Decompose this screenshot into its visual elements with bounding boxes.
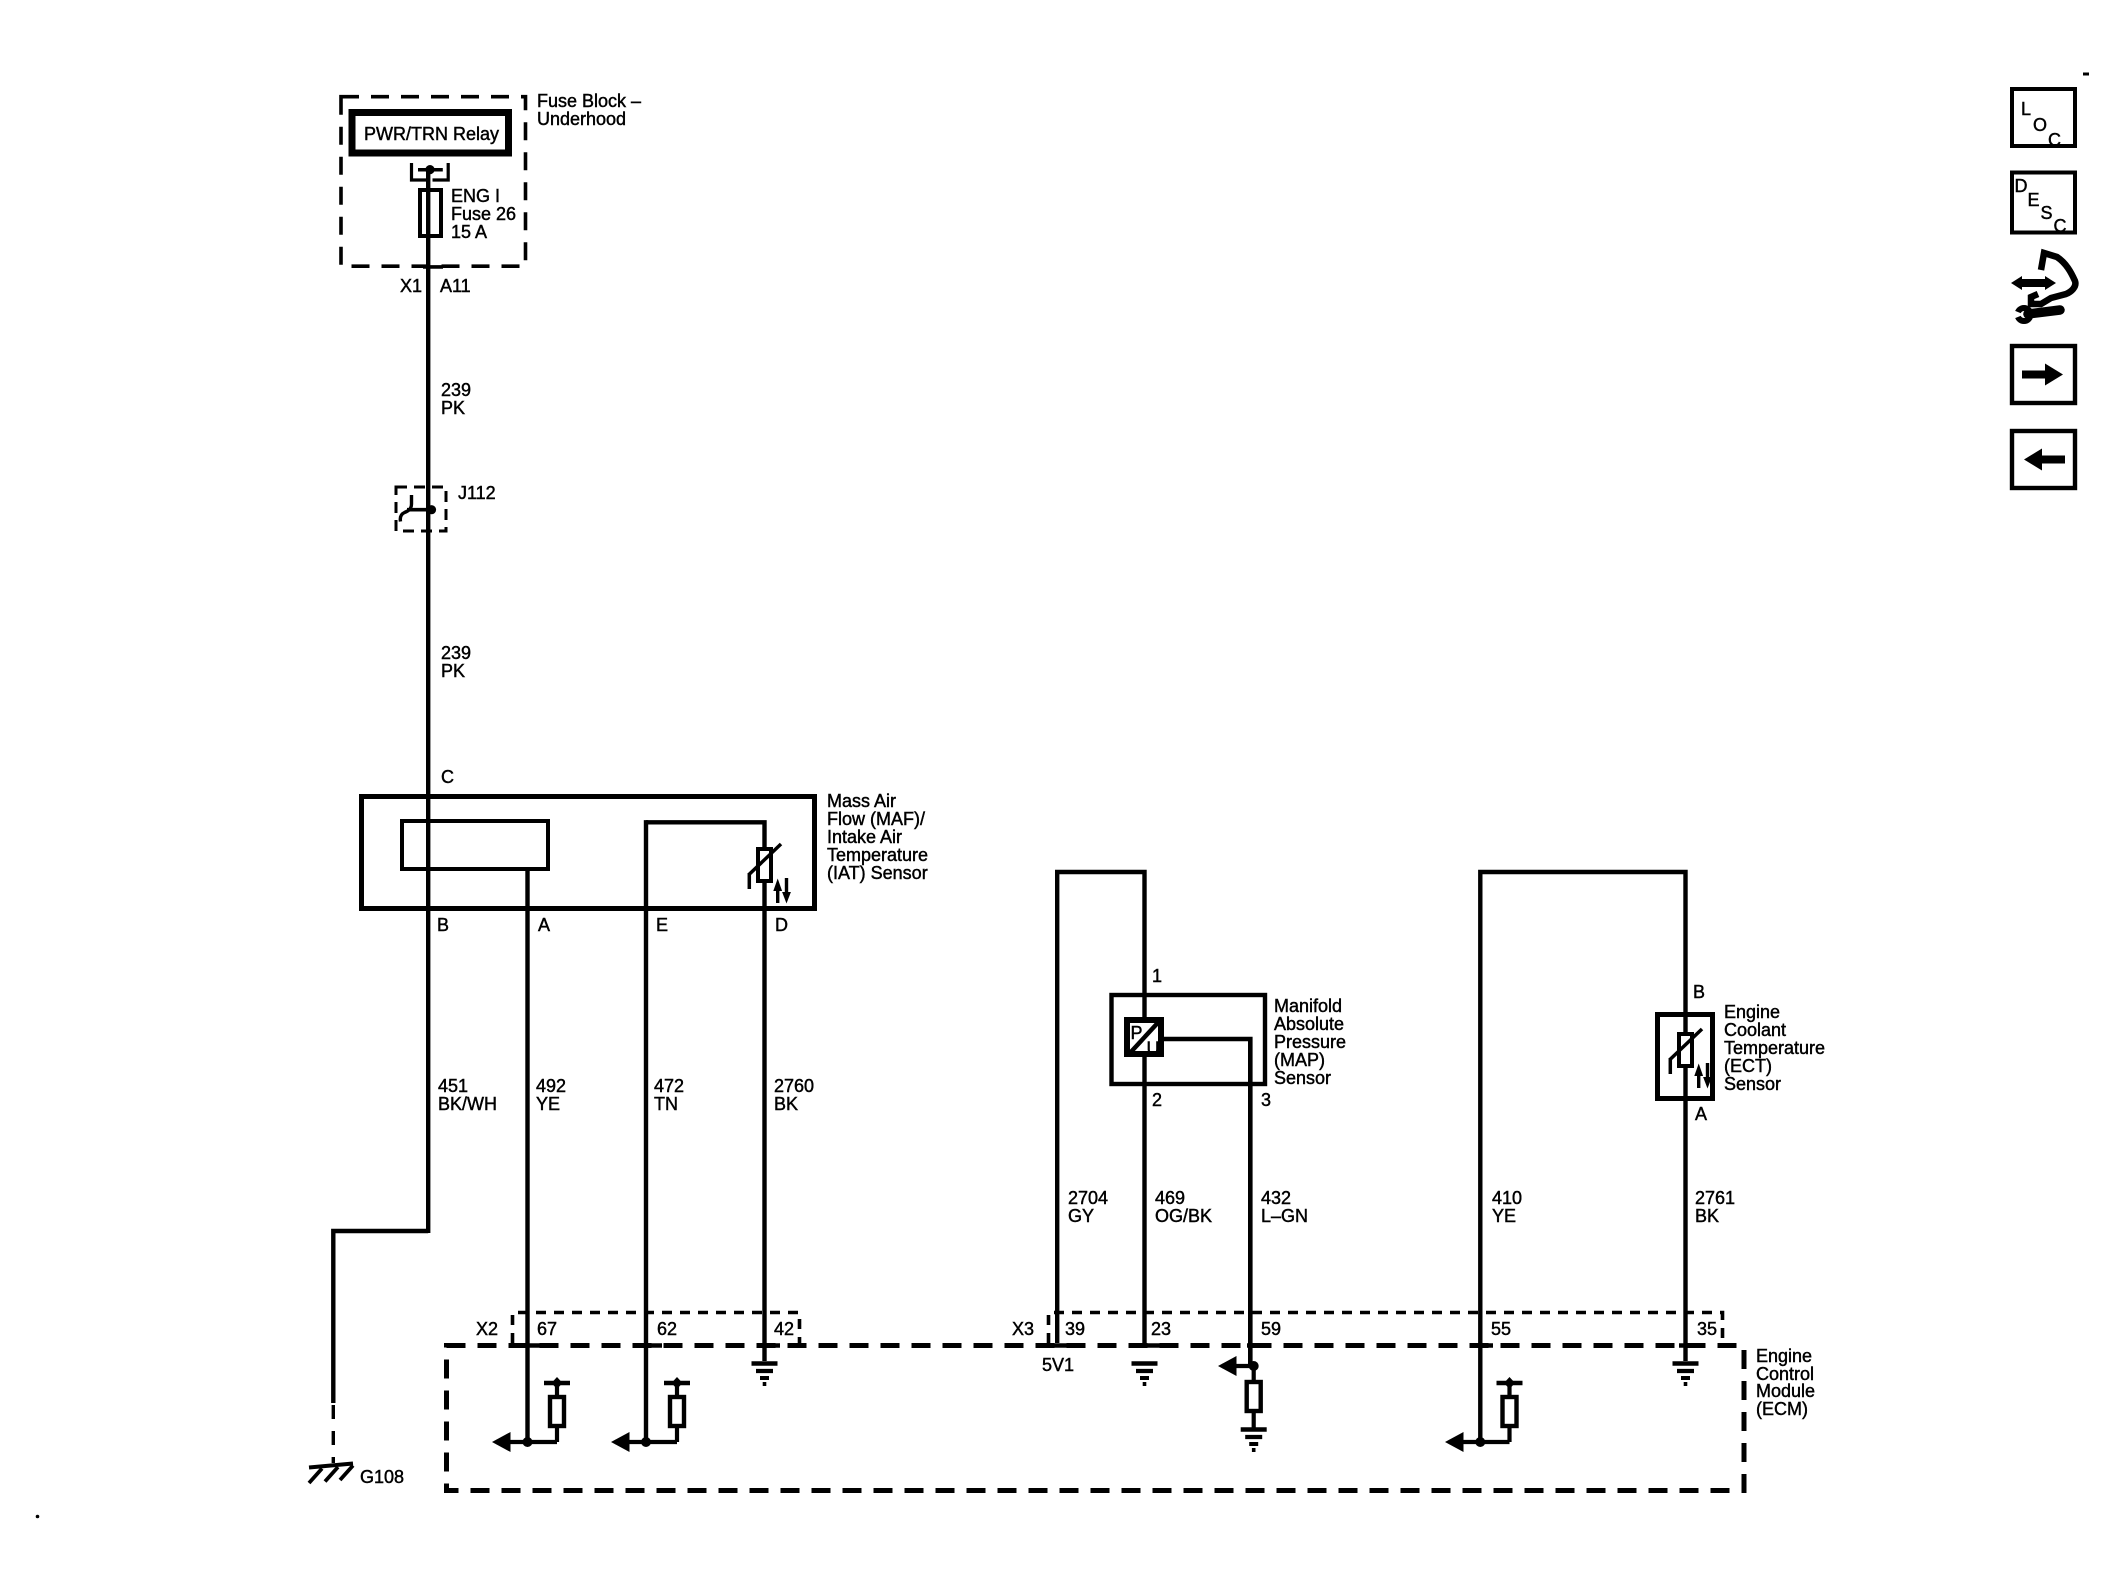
pin tick 55 bbox=[1471, 1343, 1493, 1348]
ECT wires: riser from ECM 55 bbox=[1480, 872, 1685, 1442]
resistor at pin 67 bbox=[544, 1381, 570, 1385]
MAP sensor wires: pin 1 riser from ECM 39 bbox=[1057, 872, 1144, 1343]
svg-text:Manifold: Manifold bbox=[1274, 996, 1342, 1016]
MAF inner element box bbox=[402, 821, 548, 869]
svg-text:TN: TN bbox=[654, 1094, 678, 1114]
svg-text:D: D bbox=[775, 915, 788, 935]
svg-text:U: U bbox=[1147, 1039, 1160, 1059]
IAT thermistor bbox=[758, 849, 771, 881]
svg-text:YE: YE bbox=[536, 1094, 560, 1114]
svg-text:A11: A11 bbox=[440, 276, 471, 296]
connector X2 (dotted box) bbox=[513, 1313, 800, 1344]
svg-text:S: S bbox=[2041, 203, 2053, 223]
svg-text:P: P bbox=[1131, 1023, 1143, 1043]
pin tick X1 A11 bbox=[423, 265, 443, 269]
svg-text:1: 1 bbox=[1152, 966, 1162, 986]
svg-text:X1: X1 bbox=[400, 276, 422, 296]
stray mark top right bbox=[2083, 73, 2089, 76]
svg-text:62: 62 bbox=[657, 1319, 677, 1339]
svg-text:469: 469 bbox=[1155, 1188, 1185, 1208]
svg-text:Underhood: Underhood bbox=[537, 109, 626, 129]
ECT variable arrows bbox=[1697, 1074, 1700, 1088]
svg-text:Engine: Engine bbox=[1756, 1346, 1812, 1366]
svg-text:Sensor: Sensor bbox=[1274, 1068, 1331, 1088]
ECM internal: node at pin 62 bbox=[641, 1437, 651, 1447]
nav icon back arrow box bbox=[2012, 431, 2075, 488]
wire fuse down through MAF to pin B bbox=[426, 236, 430, 1233]
ECM internal: node at pin 55 bbox=[1475, 1437, 1485, 1447]
svg-text:Pressure: Pressure bbox=[1274, 1032, 1346, 1052]
svg-text:472: 472 bbox=[654, 1076, 684, 1096]
MAF/IAT sensor box bbox=[362, 797, 815, 909]
ground at pin 42 bbox=[752, 1361, 778, 1365]
MAP sensor box bbox=[1112, 995, 1266, 1084]
ECM box (dashed) bbox=[447, 1346, 1745, 1491]
fuse F ENG I Fuse 26 15A bbox=[420, 190, 441, 236]
svg-text:BK/WH: BK/WH bbox=[438, 1094, 497, 1114]
svg-text:5V1: 5V1 bbox=[1042, 1355, 1074, 1375]
nav icon DESC box bbox=[2012, 173, 2075, 233]
IAT variable arrows bbox=[776, 889, 779, 903]
svg-text:YE: YE bbox=[1492, 1206, 1516, 1226]
svg-text:55: 55 bbox=[1491, 1319, 1511, 1339]
svg-text:J112: J112 bbox=[458, 483, 496, 503]
svg-text:L–GN: L–GN bbox=[1261, 1206, 1308, 1226]
svg-text:2704: 2704 bbox=[1068, 1188, 1108, 1208]
svg-text:Fuse 26: Fuse 26 bbox=[451, 204, 516, 224]
svg-text:3: 3 bbox=[1261, 1090, 1271, 1110]
svg-text:PWR/TRN Relay: PWR/TRN Relay bbox=[364, 124, 499, 144]
svg-text:2761: 2761 bbox=[1695, 1188, 1735, 1208]
svg-text:Intake Air: Intake Air bbox=[827, 827, 902, 847]
svg-text:X3: X3 bbox=[1012, 1319, 1034, 1339]
relay output terminal bracket bbox=[412, 163, 428, 180]
ECT thermistor bbox=[1679, 1034, 1692, 1066]
svg-text:(IAT) Sensor: (IAT) Sensor bbox=[827, 863, 928, 883]
svg-text:67: 67 bbox=[537, 1319, 557, 1339]
nav icon schematic/wrench bbox=[2008, 253, 2075, 321]
wire pin E to ECM 62 bbox=[644, 820, 648, 1442]
ECT sensor box bbox=[1658, 1015, 1713, 1099]
svg-text:(ECT): (ECT) bbox=[1724, 1056, 1772, 1076]
wire pin D to ECM 42 bbox=[762, 881, 766, 1361]
svg-text:Absolute: Absolute bbox=[1274, 1014, 1344, 1034]
pin tick 59 bbox=[1247, 1343, 1269, 1348]
svg-text:Temperature: Temperature bbox=[827, 845, 928, 865]
svg-text:239: 239 bbox=[441, 643, 471, 663]
svg-text:410: 410 bbox=[1492, 1188, 1522, 1208]
svg-text:15 A: 15 A bbox=[451, 222, 487, 242]
svg-text:D: D bbox=[2015, 176, 2028, 196]
svg-text:492: 492 bbox=[536, 1076, 566, 1096]
resistor at pin 59 bbox=[1252, 1366, 1256, 1383]
ground at pin 35 bbox=[1673, 1361, 1699, 1365]
svg-text:O: O bbox=[2033, 115, 2047, 135]
svg-text:BK: BK bbox=[1695, 1206, 1719, 1226]
ground G108 bbox=[309, 1464, 353, 1468]
svg-text:(MAP): (MAP) bbox=[1274, 1050, 1325, 1070]
svg-text:C: C bbox=[441, 767, 454, 787]
relay K (PWR/TRN Relay) bbox=[352, 113, 509, 154]
svg-text:B: B bbox=[437, 915, 449, 935]
stray dot bottom left bbox=[36, 1515, 40, 1519]
svg-text:Coolant: Coolant bbox=[1724, 1020, 1786, 1040]
wire E loop horizontal and IAT top leg bbox=[646, 822, 765, 850]
nav icon next arrow box bbox=[2012, 346, 2075, 403]
svg-text:A: A bbox=[1695, 1104, 1707, 1124]
P/U pressure sensor symbol bbox=[1127, 1020, 1161, 1054]
fuse block - underhood (dashed box) bbox=[341, 97, 526, 267]
wire 451 elbow to ground bbox=[333, 1231, 428, 1403]
svg-text:Sensor: Sensor bbox=[1724, 1074, 1781, 1094]
splice J112 (dashed box) bbox=[396, 487, 446, 531]
svg-text:PK: PK bbox=[441, 661, 465, 681]
svg-text:239: 239 bbox=[441, 380, 471, 400]
ECM internal: node at pin 67 bbox=[523, 1437, 533, 1447]
svg-text:L: L bbox=[2021, 99, 2031, 119]
svg-text:Module: Module bbox=[1756, 1381, 1815, 1401]
pin tick 42 bbox=[758, 1343, 780, 1348]
wire P/U out to pin 3 bbox=[1164, 1039, 1250, 1366]
wire ECT pin A to ECM 35 bbox=[1683, 1066, 1687, 1361]
pin tick 35 bbox=[1679, 1343, 1701, 1348]
ECM internal: arrow at pin 59 bbox=[1222, 1364, 1254, 1368]
svg-text:X2: X2 bbox=[476, 1319, 498, 1339]
svg-text:Engine: Engine bbox=[1724, 1002, 1780, 1022]
svg-text:35: 35 bbox=[1697, 1319, 1717, 1339]
svg-text:C: C bbox=[2048, 130, 2061, 150]
svg-text:A: A bbox=[538, 915, 550, 935]
nav icon LOC box bbox=[2012, 89, 2075, 146]
pin tick 62 bbox=[640, 1343, 662, 1348]
svg-text:ENG I: ENG I bbox=[451, 186, 500, 206]
ground at pin 59 resistor bbox=[1241, 1427, 1267, 1431]
svg-text:Fuse Block –: Fuse Block – bbox=[537, 91, 641, 111]
svg-text:451: 451 bbox=[438, 1076, 468, 1096]
svg-text:59: 59 bbox=[1261, 1319, 1281, 1339]
wire pin A to ECM 67 bbox=[525, 869, 529, 1442]
resistor at pin 62 bbox=[664, 1381, 690, 1385]
svg-text:G108: G108 bbox=[360, 1467, 404, 1487]
resistor at pin 55 bbox=[1497, 1381, 1523, 1385]
svg-text:42: 42 bbox=[774, 1319, 794, 1339]
pin tick 23 bbox=[1139, 1343, 1161, 1348]
svg-text:E: E bbox=[656, 915, 668, 935]
svg-text:39: 39 bbox=[1065, 1319, 1085, 1339]
svg-text:23: 23 bbox=[1151, 1319, 1171, 1339]
svg-text:GY: GY bbox=[1068, 1206, 1094, 1226]
svg-text:PK: PK bbox=[441, 398, 465, 418]
splice symbol bbox=[407, 508, 429, 512]
svg-text:Mass Air: Mass Air bbox=[827, 791, 896, 811]
svg-text:2760: 2760 bbox=[774, 1076, 814, 1096]
svg-text:2: 2 bbox=[1152, 1090, 1162, 1110]
svg-text:(ECM): (ECM) bbox=[1756, 1399, 1808, 1419]
pin tick 67 bbox=[521, 1343, 543, 1348]
svg-text:432: 432 bbox=[1261, 1188, 1291, 1208]
svg-text:OG/BK: OG/BK bbox=[1155, 1206, 1212, 1226]
ground at pin 23 bbox=[1132, 1361, 1158, 1365]
svg-text:Temperature: Temperature bbox=[1724, 1038, 1825, 1058]
connector X3 (dotted box) bbox=[1049, 1313, 1723, 1344]
svg-text:B: B bbox=[1693, 982, 1705, 1002]
wire relay to fuse bbox=[426, 170, 430, 192]
svg-text:E: E bbox=[2028, 190, 2040, 210]
svg-text:Flow (MAF)/: Flow (MAF)/ bbox=[827, 809, 925, 829]
svg-text:BK: BK bbox=[774, 1094, 798, 1114]
pin tick 39 bbox=[1051, 1343, 1073, 1348]
svg-text:C: C bbox=[2054, 216, 2067, 236]
